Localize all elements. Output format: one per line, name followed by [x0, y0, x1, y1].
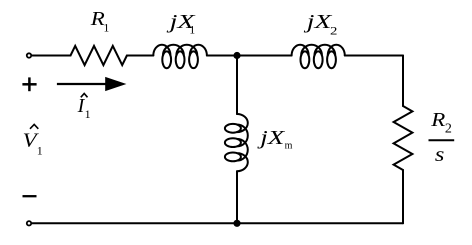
resistor R1	[71, 46, 127, 65]
svg-text:2: 2	[330, 23, 337, 37]
svg-text:1: 1	[103, 21, 109, 35]
wire node to jXm	[236, 56, 238, 115]
svg-text:s: s	[435, 144, 445, 166]
plus sign	[22, 77, 36, 91]
svg-text:1: 1	[189, 23, 195, 37]
resistor R2/s	[394, 106, 413, 170]
terminal bottom-left	[27, 221, 31, 225]
wire jX2 to top-right corner	[345, 55, 403, 57]
node top (junction)	[233, 52, 240, 59]
current arrow shaft	[57, 83, 107, 85]
svg-text:1: 1	[37, 144, 43, 158]
wire bottom	[32, 222, 403, 224]
svg-text:2: 2	[445, 121, 452, 136]
label V1 hat	[30, 124, 38, 128]
minus sign	[23, 195, 37, 197]
svg-text:m: m	[285, 140, 293, 151]
svg-text:1: 1	[85, 107, 91, 121]
inductor jX1	[153, 45, 207, 68]
svg-text:R: R	[430, 109, 445, 131]
wire R1 to jX1	[127, 55, 153, 57]
wire right side down to R2	[402, 56, 404, 107]
wire top-left segment	[32, 55, 71, 57]
node bottom (junction)	[233, 220, 240, 227]
label I1 hat	[81, 94, 88, 98]
wire R2 to bottom-right corner	[402, 170, 404, 223]
current arrow head	[105, 77, 126, 91]
fraction bar	[429, 139, 455, 141]
inductor jX2	[292, 45, 345, 69]
terminal top-left	[27, 53, 31, 57]
wire jXm to bottom node	[236, 171, 238, 223]
svg-text:jX: jX	[256, 127, 285, 149]
inductor jXm	[225, 114, 248, 171]
svg-text:jX: jX	[303, 11, 333, 33]
wire jX1 to jX2 through node	[207, 55, 292, 57]
